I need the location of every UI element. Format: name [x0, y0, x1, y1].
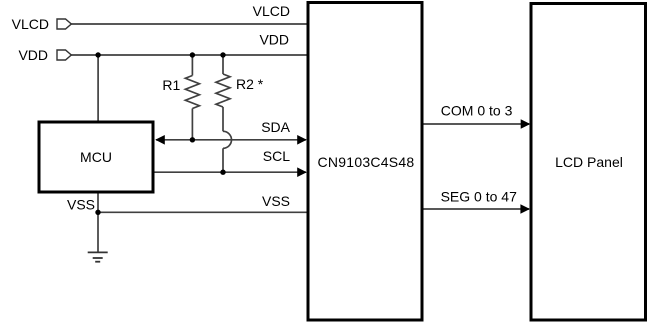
svg-text:VLCD: VLCD [12, 16, 49, 32]
svg-text:LCD Panel: LCD Panel [555, 154, 623, 170]
svg-text:COM 0 to 3: COM 0 to 3 [441, 103, 513, 119]
svg-text:R1: R1 [162, 77, 180, 93]
svg-text:SEG 0 to 47: SEG 0 to 47 [441, 189, 517, 205]
svg-text:VDD: VDD [259, 32, 289, 48]
svg-text:VLCD: VLCD [253, 3, 290, 19]
svg-text:MCU: MCU [80, 149, 112, 165]
svg-text:SDA: SDA [261, 119, 290, 135]
svg-text:CN9103C4S48: CN9103C4S48 [318, 154, 415, 170]
svg-text:VDD: VDD [18, 47, 48, 63]
svg-text:VSS: VSS [262, 193, 290, 209]
svg-text:R2 *: R2 * [236, 76, 264, 92]
svg-text:VSS: VSS [67, 196, 95, 212]
svg-text:SCL: SCL [263, 148, 290, 164]
